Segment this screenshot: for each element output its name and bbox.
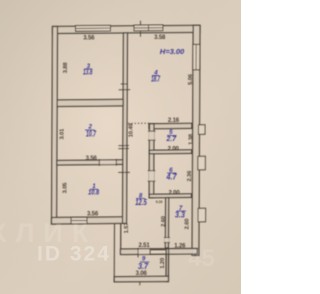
svg-text:10.8: 10.8	[88, 188, 100, 197]
door jamb ticks	[99, 21, 171, 286]
dimension texts dark	[60, 35, 195, 277]
ticks on central wall	[121, 83, 128, 85]
svg-text:4.7: 4.7	[166, 172, 178, 181]
svg-text:10.7: 10.7	[86, 130, 96, 139]
central wall	[123, 33, 128, 224]
svg-text:1.57: 1.57	[124, 223, 130, 234]
left wall	[52, 26, 58, 224]
svg-text:3.06: 3.06	[136, 271, 148, 277]
svg-text:1.38: 1.38	[189, 133, 195, 145]
svg-text:0.19: 0.19	[156, 200, 163, 204]
room 9 bottom wall	[114, 276, 168, 282]
svg-text:H=3.00: H=3.00	[160, 47, 185, 56]
window room 3 top	[75, 25, 110, 31]
left wall of rooms 5 and 6	[149, 124, 154, 198]
door gaps (erase)	[99, 131, 170, 254]
svg-text:2.60: 2.60	[161, 216, 167, 227]
room 8 label	[135, 192, 147, 207]
door jambs in bottom corridor wall	[137, 248, 139, 258]
room 6 label	[166, 167, 178, 182]
svg-text:1.26: 1.26	[174, 244, 186, 250]
svg-text:2.7: 2.7	[166, 134, 177, 143]
room 5 label	[166, 129, 177, 143]
svg-text:ID 324: ID 324	[37, 243, 111, 266]
svg-text:3.01: 3.01	[60, 128, 66, 140]
top wall	[52, 25, 200, 33]
wall between room 4 and room 5	[149, 123, 192, 128]
wall between room 3 and room 2	[57, 99, 123, 106]
window room 4 right	[193, 44, 200, 70]
room 9 label	[138, 255, 149, 270]
svg-text:3.56: 3.56	[86, 156, 98, 162]
svg-text:13.8: 13.8	[83, 68, 93, 77]
room 9 right wall	[166, 249, 169, 282]
room 3 label	[83, 63, 93, 77]
svg-text:45: 45	[188, 245, 215, 272]
svg-text:1.20: 1.20	[160, 258, 166, 269]
tick crossing top wall	[139, 21, 141, 37]
svg-text:10.49: 10.49	[129, 123, 135, 138]
svg-text:3.88: 3.88	[63, 62, 69, 74]
svg-text:3.05: 3.05	[63, 182, 69, 194]
svg-text:3.7: 3.7	[138, 262, 148, 271]
bottom wall of room 1	[52, 217, 127, 224]
right wall	[192, 25, 200, 255]
svg-text:3.56: 3.56	[87, 212, 99, 218]
dotted opening corridor/room4	[128, 122, 150, 124]
svg-text:2.16: 2.16	[168, 118, 180, 124]
room 7 label	[175, 205, 186, 220]
svg-text:3.3: 3.3	[175, 210, 186, 219]
room 4 label	[151, 69, 160, 83]
svg-text:12.5: 12.5	[135, 198, 147, 207]
bottom wall of corridor 8 and room 7	[120, 248, 197, 254]
room 1 label	[88, 183, 100, 196]
lower central wall single line with 1.57	[120, 223, 122, 249]
svg-text:2.00: 2.00	[168, 147, 180, 153]
blue room labels	[83, 47, 186, 271]
watermark	[0, 218, 215, 272]
window box right of room 5	[198, 125, 205, 135]
window room 4 top	[134, 25, 163, 31]
svg-text:2.51: 2.51	[138, 243, 150, 249]
porch outline / room 9 left wall	[113, 223, 115, 281]
window in corridor bottom wall	[150, 250, 166, 254]
svg-text:5.06: 5.06	[188, 73, 194, 85]
left wall of room 7	[165, 198, 168, 248]
wall between room 2 and room 1	[57, 160, 123, 165]
svg-text:3.56: 3.56	[83, 36, 95, 42]
tick below room 9 bottom wall	[139, 281, 141, 285]
windows	[71, 25, 206, 224]
svg-text:2.60: 2.60	[185, 219, 191, 230]
svg-text:2.00: 2.00	[168, 190, 180, 196]
wall between room 5 and room 6	[149, 150, 191, 154]
window room 1 bottom	[71, 217, 87, 224]
window box right of room 6	[198, 156, 206, 170]
paper background	[0, 0, 241, 294]
svg-text:18.7: 18.7	[151, 75, 160, 84]
window box right of room 7	[198, 208, 206, 222]
svg-text:2.36: 2.36	[187, 170, 193, 182]
bottom wall of room 6	[149, 194, 191, 198]
svg-text:3.58: 3.58	[154, 35, 166, 41]
room 2 label	[85, 124, 96, 139]
